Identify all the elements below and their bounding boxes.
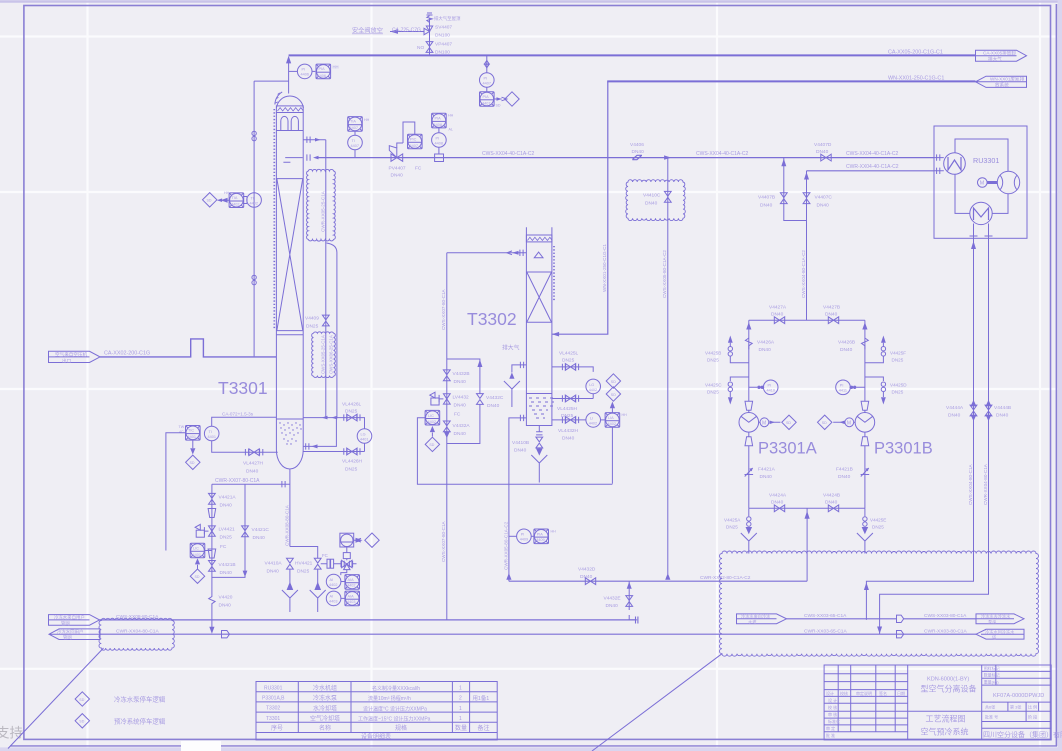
svg-text:V4427A: V4427A xyxy=(769,305,787,311)
svg-text:CWS-XX04-80-C1A: CWS-XX04-80-C1A xyxy=(968,463,973,505)
svg-text:DN40: DN40 xyxy=(580,574,593,580)
valve V4432B xyxy=(443,370,469,385)
svg-text:CA-XX05-200-C1G-C1: CA-XX05-200-C1G-C1 xyxy=(888,50,943,56)
pentagon marker CWR cloud xyxy=(897,631,904,638)
control valve LV4432 xyxy=(430,392,469,417)
pump suction manifold top xyxy=(749,319,865,321)
svg-text:CWS-XX05-25-C1A: CWS-XX05-25-C1A xyxy=(321,335,326,374)
svg-text:4402: 4402 xyxy=(250,201,258,205)
svg-text:4406: 4406 xyxy=(318,74,326,78)
arrows at manifold corners xyxy=(749,320,865,329)
svg-text:LG: LG xyxy=(589,383,594,387)
svg-text:RU3301: RU3301 xyxy=(973,156,999,165)
off-page connector CWS right out xyxy=(976,613,1024,625)
svg-text:工作温度~15°C 设计压力XXMPa: 工作温度~15°C 设计压力XXMPa xyxy=(358,716,431,723)
reducer above V4421B xyxy=(208,549,216,558)
svg-text:VL4426H: VL4426H xyxy=(342,459,363,465)
svg-text:DN40: DN40 xyxy=(816,149,829,155)
top sheet edge xyxy=(0,0,1062,3)
svg-text:M: M xyxy=(980,181,985,187)
svg-text:DN40: DN40 xyxy=(840,347,853,353)
svg-text:LIC: LIC xyxy=(193,547,199,551)
level gauge loop right of T3301 xyxy=(303,402,372,473)
svg-text:HH: HH xyxy=(448,114,454,118)
svg-text:WN-XX01-250-C1G-C1: WN-XX01-250-C1G-C1 xyxy=(888,76,944,82)
svg-text:SD: SD xyxy=(79,720,84,724)
vent valve V4425B xyxy=(705,336,749,363)
condenser cooling stubs xyxy=(970,224,993,239)
svg-text:4406: 4406 xyxy=(301,73,309,77)
svg-text:RU3301: RU3301 xyxy=(264,685,283,691)
svg-text:4402: 4402 xyxy=(329,583,337,587)
instrument LIC square T3302 xyxy=(425,410,440,425)
svg-text:M: M xyxy=(847,420,851,426)
pump B drain xyxy=(857,508,886,553)
motor M pump B xyxy=(845,418,855,427)
bypass bottom T3302 xyxy=(447,404,480,443)
svg-text:用1备1: 用1备1 xyxy=(473,694,490,702)
svg-text:DN40: DN40 xyxy=(246,469,259,475)
valve V4409 xyxy=(305,315,329,329)
svg-text:安全阀放空: 安全阀放空 xyxy=(352,27,383,35)
pump discharge manifold bottom xyxy=(749,507,865,509)
instrument PI on vent riser xyxy=(289,64,312,79)
arrow + diamond right of PCV xyxy=(354,533,379,547)
compressor xyxy=(997,171,1019,193)
wire left branch y81 to vent riser xyxy=(254,80,289,82)
svg-text:M: M xyxy=(762,420,766,426)
column T3302 xyxy=(526,227,554,425)
svg-text:SD: SD xyxy=(786,421,791,425)
valve V4410A on drain xyxy=(265,558,294,583)
svg-text:HH: HH xyxy=(551,530,557,534)
svg-text:AL: AL xyxy=(449,128,453,132)
valve V4432A xyxy=(443,421,470,437)
spectacle blind lower xyxy=(252,275,256,285)
svg-text:4409: 4409 xyxy=(520,538,528,542)
svg-text:DN25: DN25 xyxy=(707,390,719,395)
svg-text:数量标记: 数量标记 xyxy=(984,672,1000,678)
branch V4432E to header1 xyxy=(604,581,638,623)
instrument PIC square xyxy=(403,122,422,149)
svg-text:F4421A: F4421A xyxy=(758,467,776,473)
svg-text:V4444A: V4444A xyxy=(946,405,964,411)
analyzer AI circles xyxy=(326,570,346,606)
valve HV4421 xyxy=(295,558,321,583)
off-page connector CWR right in xyxy=(976,628,1024,640)
svg-text:P3301B: P3301B xyxy=(874,440,933,458)
svg-text:审 定: 审 定 xyxy=(826,725,835,731)
tee T3301 drain branch xyxy=(290,547,318,559)
drain valve V4425D xyxy=(865,377,907,405)
svg-text:FC: FC xyxy=(454,412,461,418)
interlock diamond left xyxy=(203,193,230,207)
svg-text:CWS-XX03-65-C1A: CWS-XX03-65-C1A xyxy=(804,613,847,619)
condenser circle xyxy=(970,202,992,224)
arrow up + diamond below LIC T3302 xyxy=(425,426,439,452)
pump discharge riser x806.5 xyxy=(806,171,808,320)
svg-text:PIA: PIA xyxy=(319,67,326,71)
valve V4421B xyxy=(209,561,236,577)
svg-text:HH: HH xyxy=(333,65,339,70)
instrument PIA square xyxy=(312,64,339,79)
instrument TIA square xyxy=(224,191,244,208)
svg-text:名称: 名称 xyxy=(319,724,331,732)
pentagon marker CWS cloud xyxy=(897,615,904,622)
svg-text:DN25: DN25 xyxy=(707,358,719,363)
reducer pump B top xyxy=(861,401,869,410)
svg-text:DN40: DN40 xyxy=(760,203,773,209)
svg-text:V4425D: V4425D xyxy=(890,383,907,388)
arrow + funnel HV4421 xyxy=(310,583,326,612)
diagonal leader left xyxy=(8,648,104,749)
motor M compressor xyxy=(978,178,998,188)
valve V4427A xyxy=(769,305,787,324)
pipe RU cooling return xyxy=(877,238,988,634)
analyzer sample line xyxy=(321,553,357,564)
svg-text:空气来自空压机: 空气来自空压机 xyxy=(55,351,88,358)
arrow down into y581 xyxy=(506,573,511,580)
off-page connector CA vent xyxy=(976,50,1027,63)
svg-text:PI: PI xyxy=(768,384,772,388)
off-page connector air inlet xyxy=(49,351,101,364)
svg-text:V4410C: V4410C xyxy=(643,193,661,199)
svg-text:V4432B: V4432B xyxy=(453,371,470,377)
svg-text:CWR-XX05-25-C1A: CWR-XX05-25-C1A xyxy=(321,190,326,232)
svg-text:CWS-XX04-80-C1A-C2: CWS-XX04-80-C1A-C2 xyxy=(801,250,806,298)
svg-text:设计温度°C 设计压力XXMPa: 设计温度°C 设计压力XXMPa xyxy=(363,705,427,712)
svg-text:DN40: DN40 xyxy=(562,436,575,442)
svg-text:SV4407: SV4407 xyxy=(435,25,452,31)
svg-text:DN40: DN40 xyxy=(771,312,784,318)
svg-text:CWS-XX03-80-C1A: CWS-XX03-80-C1A xyxy=(924,613,967,619)
pipe TIC line y417 left of T3301 xyxy=(212,417,277,426)
bottom white notch xyxy=(181,741,221,751)
cloud big bottom right xyxy=(719,551,1038,656)
svg-text:2: 2 xyxy=(459,696,462,702)
drain valve V4425C xyxy=(705,377,749,405)
svg-text:DN40: DN40 xyxy=(219,603,232,609)
bottom sheet edge line xyxy=(10,745,1057,747)
inline filter xyxy=(327,559,334,568)
svg-text:LV4421: LV4421 xyxy=(219,527,236,533)
off-page connector CWR return bottom left xyxy=(49,628,100,641)
svg-text:DN25: DN25 xyxy=(297,569,310,575)
valve V4410C xyxy=(643,191,671,206)
svg-text:WN-XX01废氮排: WN-XX01废氮排 xyxy=(990,76,1025,83)
svg-text:DN40: DN40 xyxy=(825,312,838,318)
pipe T3301 outlet down xyxy=(289,470,291,547)
interlock diamond pump A xyxy=(770,415,797,429)
reducer pump A bottom xyxy=(745,432,753,508)
svg-text:SD: SD xyxy=(207,199,212,203)
svg-text:图样标记: 图样标记 xyxy=(984,665,1000,671)
valve V4432C xyxy=(477,394,504,409)
svg-text:DN40: DN40 xyxy=(487,403,500,409)
svg-text:4407: 4407 xyxy=(350,126,358,130)
svg-text:流量10m³ 扬程m¹/h: 流量10m³ 扬程m¹/h xyxy=(368,695,411,702)
pipe LI tap T3302 y420 xyxy=(552,413,605,442)
svg-text:4411: 4411 xyxy=(839,389,847,393)
svg-text:V4425E: V4425E xyxy=(870,518,886,523)
svg-text:CWR-XX04-40-C1A-C2: CWR-XX04-40-C1A-C2 xyxy=(846,164,899,170)
svg-text:设 计: 设 计 xyxy=(828,697,837,703)
instrument LIC square xyxy=(190,543,212,558)
wire vent riser T3301 to CA header xyxy=(288,58,290,94)
instrument PI pump B xyxy=(836,380,865,395)
svg-text:4402: 4402 xyxy=(589,421,597,425)
svg-text:CWS-XX07-80-C1A: CWS-XX07-80-C1A xyxy=(441,520,446,562)
RU3301 inner frame xyxy=(955,139,1008,213)
svg-text:冷水机组: 冷水机组 xyxy=(313,684,337,692)
evaporator circle xyxy=(934,153,965,175)
valve V4421C xyxy=(242,526,270,541)
pipe CWR-XX07 line y484 xyxy=(212,478,290,488)
wire LIA down xyxy=(611,427,613,484)
svg-text:PI: PI xyxy=(436,136,440,140)
svg-text:AIA: AIA xyxy=(348,578,355,582)
svg-text:DN25: DN25 xyxy=(306,324,319,330)
arrow + funnel drain T3301 xyxy=(282,583,298,612)
control valve PV4407 xyxy=(389,143,422,179)
valve V4424B xyxy=(823,493,840,512)
svg-text:V4407D: V4407D xyxy=(814,142,832,148)
svg-text:DN40: DN40 xyxy=(948,413,961,419)
svg-text:第 3张: 第 3张 xyxy=(1010,704,1021,710)
wire right standpipe x326 xyxy=(325,140,327,418)
svg-text:规格: 规格 xyxy=(395,724,407,732)
valve V4444A xyxy=(946,401,977,420)
svg-text:4402: 4402 xyxy=(428,420,436,424)
svg-text:DN40: DN40 xyxy=(645,201,658,207)
off-page connector CWS supply bottom left xyxy=(49,614,100,627)
svg-text:4407: 4407 xyxy=(351,144,359,148)
svg-text:V4426A: V4426A xyxy=(757,340,775,346)
svg-text:CWR-XX02-80-C1A-C2: CWR-XX02-80-C1A-C2 xyxy=(700,575,751,581)
svg-text:4407: 4407 xyxy=(482,101,490,105)
svg-text:CA-072+1.5-3s: CA-072+1.5-3s xyxy=(222,412,254,417)
valve V4407D xyxy=(814,142,832,161)
pipe T3302 feed line xyxy=(447,250,527,256)
3way analyzer valve xyxy=(341,560,353,569)
svg-text:V4410B: V4410B xyxy=(512,440,529,446)
svg-text:1: 1 xyxy=(459,716,462,722)
svg-text:DN40: DN40 xyxy=(771,500,784,506)
valve VP4407 xyxy=(417,42,452,56)
T3302 liquid dashes xyxy=(529,398,554,418)
svg-text:SD: SD xyxy=(822,421,827,425)
instrument TI circle left xyxy=(204,426,219,441)
svg-text:VP4407: VP4407 xyxy=(435,42,452,48)
pump A drain xyxy=(724,508,757,553)
svg-text:VL4425H: VL4425H xyxy=(557,406,578,412)
svg-text:HH: HH xyxy=(364,118,370,122)
svg-text:SD: SD xyxy=(79,698,84,702)
svg-text:PIA: PIA xyxy=(483,95,490,99)
check valve F4421B xyxy=(836,467,869,481)
svg-text:LIA: LIA xyxy=(608,416,614,420)
svg-text:V4432D: V4432D xyxy=(578,567,596,573)
column T3301 xyxy=(274,92,303,469)
interlock diamond pump B xyxy=(818,415,845,429)
svg-text:DN40: DN40 xyxy=(253,535,266,541)
instrument PCV square above xyxy=(340,533,354,560)
svg-text:LI: LI xyxy=(590,416,593,420)
svg-text:DN100: DN100 xyxy=(435,50,450,56)
instrument TI circle+square on CWS line x355 xyxy=(348,117,370,157)
svg-text:批准 号: 批准 号 xyxy=(985,714,998,720)
svg-text:TW: TW xyxy=(179,425,185,429)
svg-text:DN40: DN40 xyxy=(996,413,1009,419)
svg-text:放系统: 放系统 xyxy=(995,82,1009,89)
pentagon marker left xyxy=(222,631,230,638)
svg-text:AI: AI xyxy=(330,578,334,582)
svg-text:1: 1 xyxy=(459,686,462,692)
svg-text:SD: SD xyxy=(496,104,501,108)
svg-text:DN40: DN40 xyxy=(454,431,467,437)
drain T3302 bottom xyxy=(512,426,547,483)
svg-text:CWS-XX04-40-C1A-C2: CWS-XX04-40-C1A-C2 xyxy=(482,151,534,157)
svg-text:审定说明: 审定说明 xyxy=(856,690,872,696)
pipe CA vent header xyxy=(289,54,975,56)
bypass top T3302 xyxy=(447,359,480,394)
svg-text:PI: PI xyxy=(484,76,488,80)
svg-text:4407: 4407 xyxy=(410,144,418,148)
svg-text:4C: 4C xyxy=(179,430,184,434)
svg-text:4402: 4402 xyxy=(231,203,239,207)
svg-text:名义制冷量XXXkcal/h: 名义制冷量XXXkcal/h xyxy=(372,685,420,692)
svg-text:管网: 管网 xyxy=(63,634,72,641)
svg-text:V4426B: V4426B xyxy=(838,340,855,346)
svg-text:PI: PI xyxy=(302,68,306,72)
svg-text:V4421A: V4421A xyxy=(219,495,237,501)
T3301 liquid dots xyxy=(279,422,301,444)
branch PI PCV at 486.8 xyxy=(480,55,520,107)
svg-text:PIA: PIA xyxy=(537,532,544,536)
svg-text:DN25: DN25 xyxy=(892,390,904,395)
pipe air inlet line xyxy=(100,339,276,357)
svg-text:DN40: DN40 xyxy=(220,570,233,576)
instrument TIC square left xyxy=(179,425,201,440)
cloud small bottom left xyxy=(99,618,174,650)
svg-text:排大气: 排大气 xyxy=(988,56,1002,63)
svg-text:工艺流程图: 工艺流程图 xyxy=(926,714,966,724)
svg-text:空气冷却塔: 空气冷却塔 xyxy=(310,715,340,723)
svg-text:DN40: DN40 xyxy=(391,173,404,179)
wire V4421 station riser xyxy=(211,484,213,577)
instrument LIA square T3302 xyxy=(605,413,627,428)
title block xyxy=(824,665,1062,740)
right sheet outer edge xyxy=(1055,4,1057,746)
svg-text:4408: 4408 xyxy=(435,141,443,145)
svg-text:V4432C: V4432C xyxy=(486,395,504,401)
valve V4432D xyxy=(578,567,596,585)
svg-text:CWR-XX08-80-C1A: CWR-XX08-80-C1A xyxy=(284,504,289,546)
check inlet stub right xyxy=(303,418,336,450)
svg-text:DN25: DN25 xyxy=(726,525,738,530)
svg-text:CA-XX05排放卸: CA-XX05排放卸 xyxy=(983,50,1016,57)
svg-text:设备明细表: 设备明细表 xyxy=(361,733,391,741)
svg-text:序号: 序号 xyxy=(271,724,283,732)
pipe CWS main line y157.6 xyxy=(318,157,934,159)
svg-text:V4424B: V4424B xyxy=(823,493,840,499)
pipe T3302 outlet left nozzle xyxy=(509,415,527,582)
svg-text:CWS-XX06-25-C1A: CWS-XX06-25-C1A xyxy=(329,335,334,374)
svg-text:V4427B: V4427B xyxy=(823,305,840,311)
svg-text:冷冻水泵停车逻辑: 冷冻水泵停车逻辑 xyxy=(114,695,166,704)
svg-text:水冷却塔: 水冷却塔 xyxy=(313,704,337,712)
svg-text:FC: FC xyxy=(415,166,422,172)
svg-text:DN40: DN40 xyxy=(220,503,233,509)
svg-text:CWR-XX07-80-C1A: CWR-XX07-80-C1A xyxy=(215,478,260,484)
svg-text:DN25: DN25 xyxy=(220,535,233,541)
svg-text:4402: 4402 xyxy=(589,388,597,392)
svg-text:LV4432: LV4432 xyxy=(453,395,470,401)
svg-text:校 核: 校 核 xyxy=(828,704,837,710)
svg-text:CWS-XX07-80-C1A: CWS-XX07-80-C1A xyxy=(441,288,446,330)
svg-text:DN25: DN25 xyxy=(872,525,884,530)
off-page connector CWS tower inlet xyxy=(737,613,787,625)
reducer pump A top xyxy=(745,401,753,410)
label SV4407 xyxy=(434,15,461,39)
svg-text:PI: PI xyxy=(521,533,525,537)
svg-text:DN25: DN25 xyxy=(345,409,358,415)
svg-text:V4425C: V4425C xyxy=(705,383,722,388)
svg-text:CA-XX02-200-C1G: CA-XX02-200-C1G xyxy=(104,351,150,357)
svg-text:签名: 签名 xyxy=(879,690,887,696)
svg-text:LG: LG xyxy=(361,432,366,436)
instrument PI circle+square x438.9 xyxy=(432,113,454,161)
wire pump A suction xyxy=(748,330,750,402)
flex joint V4426B xyxy=(838,338,868,353)
valve V4424A xyxy=(769,493,787,512)
svg-text:T3302: T3302 xyxy=(266,706,280,712)
svg-text:审 核: 审 核 xyxy=(828,711,837,717)
svg-text:DN25: DN25 xyxy=(345,467,358,473)
svg-text:标准化: 标准化 xyxy=(828,718,840,724)
svg-text:DN40: DN40 xyxy=(267,569,280,575)
svg-text:CWR-XX04-80-C1A: CWR-XX04-80-C1A xyxy=(116,628,159,634)
svg-text:数量: 数量 xyxy=(455,724,467,732)
pipe to right flag xyxy=(904,618,976,620)
svg-text:4402: 4402 xyxy=(608,422,616,426)
instrument TI circle on standpipe xyxy=(243,193,261,208)
svg-text:设计: 设计 xyxy=(826,690,834,696)
safety valve SV4407 stack xyxy=(390,13,433,55)
arrow up bypass xyxy=(477,360,482,368)
svg-text:冷冻水回冷冻水: 冷冻水回冷冻水 xyxy=(985,628,1015,635)
svg-text:CWR-XX04-80-C1A: CWR-XX04-80-C1A xyxy=(983,463,988,505)
svg-text:批 准: 批 准 xyxy=(826,732,835,738)
off-page connector WN xyxy=(976,76,1027,89)
svg-text:冷冻水泵: 冷冻水泵 xyxy=(313,694,337,702)
svg-text:CWS-XX05-80-C1A-C2: CWS-XX05-80-C1A-C2 xyxy=(662,250,667,298)
svg-text:SD: SD xyxy=(611,380,616,384)
svg-text:预冷系统停车逻辑: 预冷系统停车逻辑 xyxy=(114,716,166,725)
svg-text:CWS-XX04-40-C1A-C2: CWS-XX04-40-C1A-C2 xyxy=(846,151,898,157)
svg-text:TI: TI xyxy=(251,196,254,200)
svg-text:比 例: 比 例 xyxy=(1028,704,1037,710)
legend diamond 1 xyxy=(75,692,89,706)
svg-text:VL4425L: VL4425L xyxy=(559,351,579,357)
svg-text:TI: TI xyxy=(352,139,355,143)
pipe cloud CWS y618.8 xyxy=(787,618,897,620)
level gauge loop right of T3302 xyxy=(552,351,601,420)
svg-text:泵房: 泵房 xyxy=(988,618,996,625)
valve V4406 break xyxy=(630,142,644,160)
svg-text:LIC: LIC xyxy=(428,414,434,418)
cloud jacket 1 xyxy=(307,169,336,241)
